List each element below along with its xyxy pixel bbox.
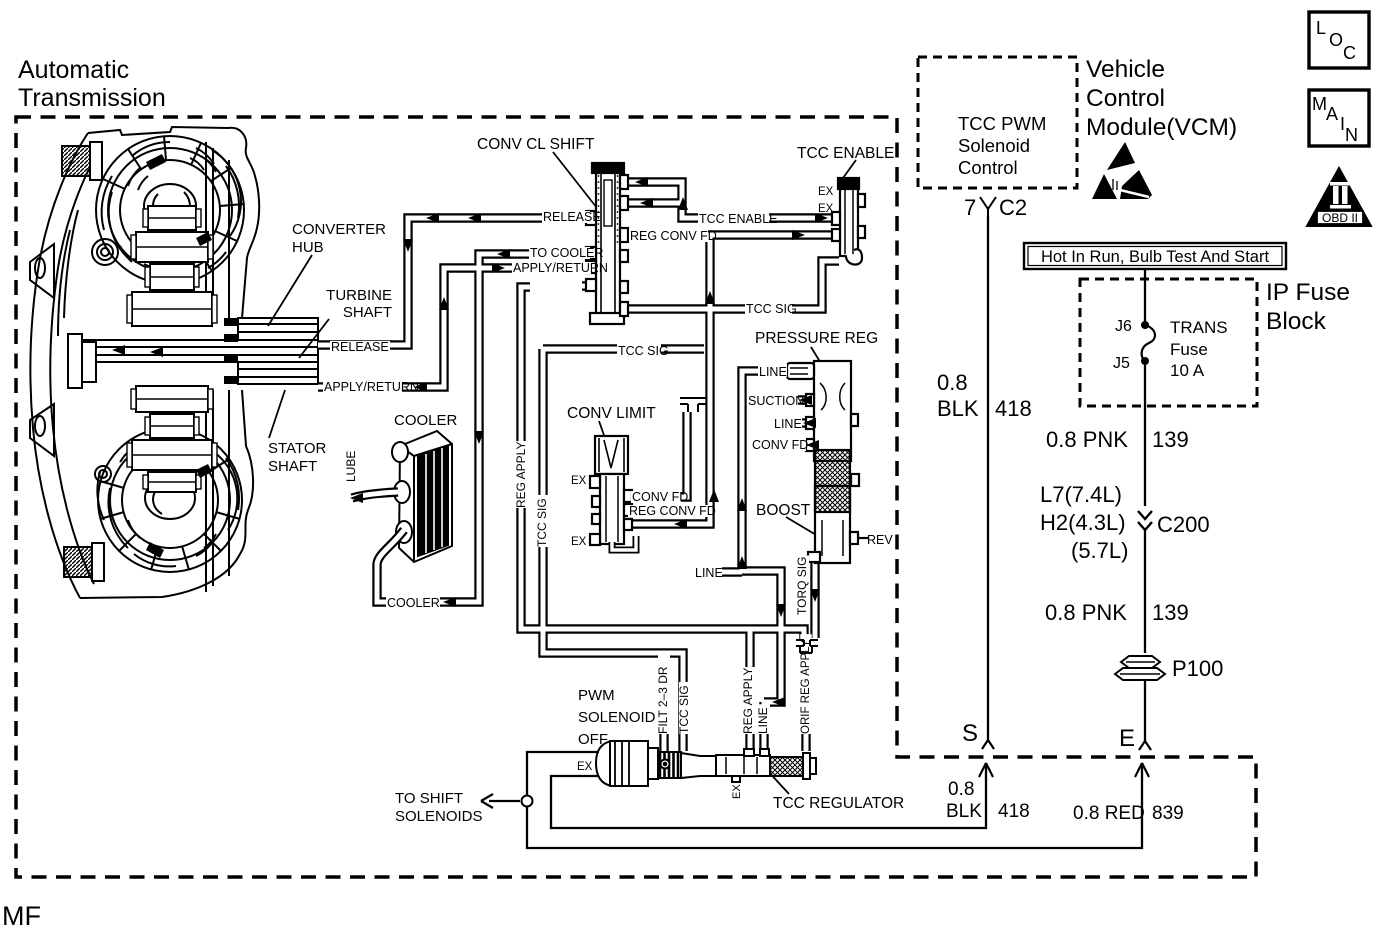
svg-text:EX: EX	[577, 761, 593, 773]
svg-text:BLK: BLK	[937, 396, 979, 421]
svg-text:PWM: PWM	[578, 687, 615, 704]
svg-text:C2: C2	[999, 195, 1027, 220]
svg-text:COOLER: COOLER	[387, 596, 440, 610]
svg-text:L: L	[1316, 18, 1326, 38]
svg-text:TCC SIG: TCC SIG	[535, 498, 549, 547]
svg-text:LINE: LINE	[774, 417, 802, 431]
svg-text:Control: Control	[958, 157, 1018, 178]
svg-text:CONVERTER: CONVERTER	[292, 221, 386, 238]
svg-text:REG CONV FD: REG CONV FD	[629, 504, 716, 518]
svg-text:TCC SIG: TCC SIG	[618, 344, 669, 358]
svg-text:J5: J5	[1113, 355, 1130, 372]
svg-text:EX: EX	[571, 536, 587, 548]
svg-text:RELEASE: RELEASE	[543, 210, 601, 224]
svg-text:LUBE: LUBE	[344, 451, 358, 482]
svg-text:418: 418	[995, 396, 1032, 421]
svg-text:HUB: HUB	[292, 239, 324, 256]
svg-text:H2(4.3L): H2(4.3L)	[1040, 510, 1126, 535]
svg-text:STATOR: STATOR	[268, 440, 327, 457]
svg-text:TCC ENABLE: TCC ENABLE	[797, 145, 894, 162]
svg-text:TCC PWM: TCC PWM	[958, 113, 1046, 134]
svg-text:839: 839	[1152, 803, 1184, 824]
svg-text:REG APPLY: REG APPLY	[514, 442, 528, 508]
svg-text:0.8: 0.8	[948, 779, 974, 800]
svg-text:EX: EX	[731, 784, 743, 799]
svg-text:TO COOLER: TO COOLER	[530, 246, 603, 260]
svg-text:A: A	[1326, 104, 1338, 124]
svg-text:139: 139	[1152, 600, 1189, 625]
svg-text:S: S	[962, 720, 978, 747]
svg-text:LINE: LINE	[756, 707, 770, 734]
svg-text:CONV LIMIT: CONV LIMIT	[567, 405, 656, 422]
svg-text:APPLY/RETURN: APPLY/RETURN	[324, 380, 419, 394]
svg-text:RELEASE: RELEASE	[331, 340, 389, 354]
svg-text:N: N	[1345, 125, 1358, 145]
svg-text:REV: REV	[867, 533, 893, 547]
svg-text:TCC SIG: TCC SIG	[746, 302, 797, 316]
svg-text:EX: EX	[818, 186, 834, 198]
svg-text:TCC ENABLE: TCC ENABLE	[699, 212, 778, 226]
svg-text:Block: Block	[1266, 308, 1327, 335]
svg-text:Vehicle: Vehicle	[1086, 56, 1165, 83]
svg-text:C200: C200	[1157, 512, 1210, 537]
svg-text:PRESSURE REG: PRESSURE REG	[755, 330, 878, 347]
svg-text:COOLER: COOLER	[394, 412, 458, 429]
svg-text:E: E	[1119, 725, 1135, 752]
svg-text:APPLY/RETURN: APPLY/RETURN	[513, 261, 608, 275]
svg-text:LINE: LINE	[759, 365, 787, 379]
svg-text:SOLENOID: SOLENOID	[578, 709, 656, 726]
svg-text:0.8 PNK: 0.8 PNK	[1046, 427, 1128, 452]
svg-text:SHAFT: SHAFT	[343, 304, 392, 321]
svg-text:C: C	[1343, 43, 1356, 63]
svg-text:LINE: LINE	[695, 566, 723, 580]
svg-text:10 A: 10 A	[1170, 361, 1205, 380]
svg-text:TO SHIFT: TO SHIFT	[395, 790, 463, 807]
svg-text:0.8 RED: 0.8 RED	[1073, 803, 1145, 824]
svg-text:EX: EX	[818, 203, 834, 215]
svg-text:OFF: OFF	[578, 731, 608, 748]
svg-text:Transmission: Transmission	[18, 84, 166, 112]
svg-text:Control: Control	[1086, 85, 1165, 112]
svg-text:BLK: BLK	[946, 801, 982, 822]
svg-text:7: 7	[964, 195, 976, 220]
svg-text:EX: EX	[571, 475, 587, 487]
svg-text:TCC SIG: TCC SIG	[677, 685, 691, 734]
svg-text:P100: P100	[1172, 656, 1223, 681]
svg-text:SOLENOIDS: SOLENOIDS	[395, 808, 483, 825]
svg-text:FILT 2–3 DR: FILT 2–3 DR	[656, 666, 670, 734]
svg-text:M: M	[1312, 94, 1327, 114]
svg-text:REG APPLY: REG APPLY	[741, 668, 755, 734]
svg-text:Module(VCM): Module(VCM)	[1086, 114, 1237, 141]
svg-text:MF: MF	[2, 901, 41, 931]
svg-text:TURBINE: TURBINE	[326, 287, 392, 304]
svg-text:0.8 PNK: 0.8 PNK	[1045, 600, 1127, 625]
svg-text:SHAFT: SHAFT	[268, 458, 317, 475]
svg-text:139: 139	[1152, 427, 1189, 452]
svg-text:418: 418	[998, 801, 1030, 822]
svg-text:OBD II: OBD II	[1322, 211, 1358, 225]
svg-text:IP Fuse: IP Fuse	[1266, 279, 1350, 306]
svg-text:TCC REGULATOR: TCC REGULATOR	[773, 795, 904, 812]
svg-text:CONV FD: CONV FD	[752, 438, 808, 452]
svg-text:Fuse: Fuse	[1170, 340, 1208, 359]
svg-text:BOOST: BOOST	[756, 502, 811, 519]
svg-text:CONV CL SHIFT: CONV CL SHIFT	[477, 136, 595, 153]
svg-text:Hot In Run, Bulb Test And Star: Hot In Run, Bulb Test And Start	[1041, 248, 1269, 266]
svg-text:TORQ SIG: TORQ SIG	[795, 557, 809, 615]
svg-text:0.8: 0.8	[937, 370, 968, 395]
svg-text:Automatic: Automatic	[18, 56, 129, 84]
svg-text:O: O	[1329, 30, 1343, 50]
svg-text:L7(7.4L): L7(7.4L)	[1040, 482, 1122, 507]
svg-text:Solenoid: Solenoid	[958, 135, 1030, 156]
svg-text:CONV FD: CONV FD	[632, 490, 688, 504]
svg-text:J6: J6	[1115, 318, 1132, 335]
svg-text:(5.7L): (5.7L)	[1071, 538, 1128, 563]
svg-text:TRANS: TRANS	[1170, 318, 1228, 337]
svg-text:REG CONV FD: REG CONV FD	[630, 229, 717, 243]
svg-text:SUCTION: SUCTION	[748, 394, 804, 408]
